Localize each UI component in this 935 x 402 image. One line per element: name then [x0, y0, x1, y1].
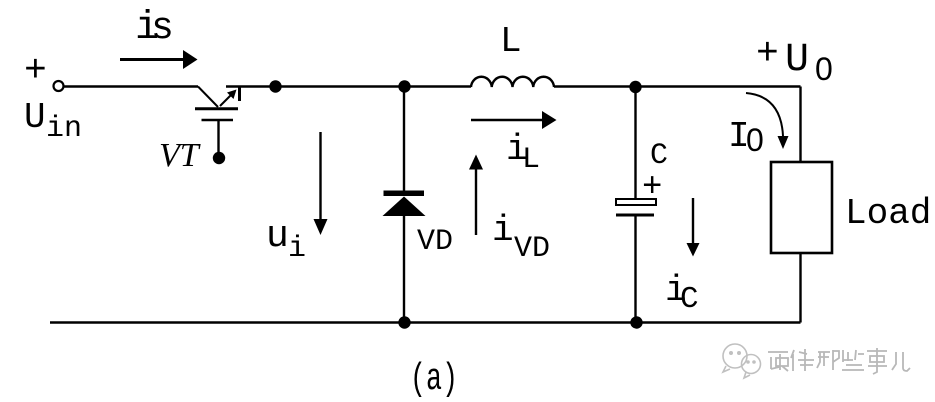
arrow i_VD (up) [475, 169, 477, 235]
svg-text:L: L [500, 21, 522, 62]
node junction dot bottom diode [398, 316, 410, 328]
node junction dot at capacitor top [629, 81, 641, 93]
svg-text:0: 0 [746, 122, 764, 158]
char 那 [817, 350, 839, 370]
arrow I0 (curved) [746, 93, 783, 136]
svg-text:0: 0 [815, 51, 833, 87]
svg-text:(a): (a) [410, 358, 458, 401]
arrow i_C (down) [692, 198, 694, 244]
wire top segment from transistor to inductor [226, 85, 471, 87]
wire bottom rail [50, 321, 801, 323]
arrow i_s [120, 58, 184, 61]
node junction dot at diode top [398, 80, 410, 92]
wire load bottom to bottom rail [799, 253, 801, 323]
diode VD [403, 87, 405, 191]
node junction dot after transistor [269, 80, 281, 92]
watermark text 硬件那些事儿 (vector strokes) [768, 348, 910, 374]
svg-text:L: L [522, 143, 540, 177]
char 事 [867, 348, 887, 374]
svg-text:in: in [46, 112, 82, 146]
svg-text:u: u [266, 215, 289, 258]
node gate terminal dot of VT [213, 152, 225, 164]
svg-text:Load: Load [845, 193, 931, 234]
svg-text:C: C [650, 139, 668, 173]
transistor VT [195, 86, 240, 154]
wire right vertical (corner to load) [799, 87, 801, 163]
svg-text:s: s [151, 7, 174, 50]
arrow i_L (right) [471, 119, 543, 121]
svg-text:C: C [680, 282, 699, 317]
char 儿 [892, 352, 910, 371]
wire top segment from inductor to right corner [554, 85, 801, 87]
svg-text:VD: VD [514, 232, 550, 266]
resistor Load box [771, 162, 832, 253]
wire top segment from input to transistor [64, 85, 198, 87]
node input terminal circle [54, 81, 64, 91]
svg-text:i: i [288, 232, 306, 266]
svg-text:U: U [785, 38, 809, 83]
node junction dot bottom capacitor [630, 316, 642, 328]
inductor L [471, 77, 554, 87]
svg-text:i: i [492, 210, 514, 251]
svg-text:+: + [24, 50, 47, 93]
svg-text:+: + [642, 169, 662, 207]
char 硬 [768, 352, 788, 371]
svg-text:VT: VT [159, 137, 201, 174]
capacitor C [634, 87, 636, 199]
watermark logo (chat bubbles) [723, 344, 761, 378]
arrow u_i (down) [319, 132, 321, 221]
char 些 [842, 350, 864, 370]
char 件 [791, 349, 814, 371]
svg-text:U: U [24, 97, 46, 138]
svg-text:+: + [756, 33, 779, 76]
svg-text:VD: VD [417, 225, 453, 259]
